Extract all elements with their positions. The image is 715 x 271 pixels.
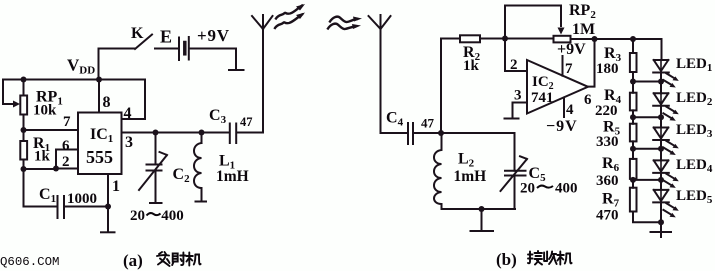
wire LED5 bottom [660, 202, 662, 231]
svg-text:47: 47 [240, 115, 253, 129]
ground pin1 [101, 231, 115, 233]
inductor L2 [434, 133, 442, 209]
svg-text:4: 4 [124, 105, 132, 122]
svg-text:2: 2 [62, 154, 70, 170]
wire pin 1 [107, 174, 109, 232]
wire tank top [441, 133, 515, 171]
svg-text:LED2: LED2 [676, 90, 713, 108]
node VDD-pin8 junction [96, 77, 102, 83]
wire R7 bottom lead [633, 180, 661, 222]
wire RP1 wiper link [3, 80, 14, 105]
node output junction [592, 36, 598, 42]
resistor R2 [460, 35, 480, 42]
svg-text:(b): (b) [496, 250, 517, 269]
wire C2 top lead [155, 133, 157, 165]
svg-text:10k: 10k [33, 103, 57, 119]
svg-text:220: 220 [595, 103, 618, 119]
caption glyphs fa-she-ji [157, 252, 201, 266]
antenna TX [252, 15, 273, 29]
wire C4 to tank [413, 132, 441, 134]
svg-text:1mH: 1mH [216, 168, 249, 185]
node row2 R junction [630, 114, 636, 120]
wire L1 bottom lead [201, 188, 203, 201]
battery E [178, 38, 180, 61]
wire R3 top lead [632, 39, 634, 53]
resistor R4 [630, 93, 637, 111]
node row3 LED junction [658, 146, 664, 152]
svg-text:330: 330 [596, 134, 619, 150]
resistor R7 [630, 188, 637, 212]
node ladder bottom junction [658, 219, 664, 225]
wire row2 [633, 116, 661, 118]
wire LED2 leads [660, 106, 662, 128]
potentiometer RP2 [554, 36, 571, 43]
wire VDD to switch K [99, 49, 136, 80]
wave arrows RX [330, 17, 357, 22]
wire pin2/pin6 tie [24, 150, 79, 170]
svg-text:20: 20 [520, 181, 535, 197]
svg-text:1k: 1k [34, 149, 51, 165]
svg-text:1mH: 1mH [454, 168, 487, 185]
node R1-pin2 junction [21, 166, 27, 172]
capacitor C4 [408, 123, 413, 144]
wire switch to battery [155, 48, 179, 50]
svg-text:7: 7 [565, 61, 573, 77]
svg-text:K: K [131, 25, 144, 42]
wire RP1 bottom lead [23, 115, 25, 142]
svg-text:Q606.COM: Q606.COM [0, 255, 60, 269]
wire row1 [633, 81, 661, 83]
caption glyphs jie-shou-ji [528, 251, 572, 265]
LED LED3 [653, 128, 679, 156]
svg-text:6: 6 [584, 92, 592, 108]
wire C5 bottom lead [514, 176, 516, 210]
arrow C2 variable [139, 152, 167, 190]
svg-text:7: 7 [63, 114, 71, 130]
svg-text:R6: R6 [602, 155, 620, 174]
wire tank to ground [481, 209, 483, 231]
resistor R3 [630, 53, 637, 72]
wire feedback loop [505, 6, 561, 39]
wire pin 3 input [513, 103, 528, 119]
potentiometer RP1 wiper arrow [13, 101, 20, 108]
node VDD-RP1 junction [21, 77, 27, 83]
svg-text:E: E [160, 27, 172, 47]
wire C3 to antenna [237, 29, 264, 133]
svg-text:180: 180 [596, 61, 619, 77]
svg-text:VDD: VDD [67, 56, 95, 77]
svg-text:LED1: LED1 [676, 56, 712, 74]
node C2 junction [153, 130, 159, 136]
node C1-pin1 junction [105, 204, 111, 210]
svg-text:1M: 1M [572, 21, 595, 38]
potentiometer RP2 wiper arrow [558, 28, 565, 35]
wire pin 4 supply [563, 98, 565, 118]
node tank ground junction [479, 206, 485, 212]
svg-text:47: 47 [421, 116, 435, 131]
wire row4 [633, 179, 661, 181]
wire VDD rail [3, 79, 145, 81]
node row4 LED junction [658, 177, 664, 183]
wire C1 right lead [65, 206, 109, 208]
wire pin 7 supply [562, 56, 564, 76]
wire pin 7 [24, 129, 79, 131]
ground L1 [196, 201, 207, 203]
svg-text:3: 3 [514, 88, 522, 104]
svg-text:3: 3 [125, 134, 133, 151]
node R2-feedback junction [502, 36, 508, 42]
wire C2 bottom lead [155, 171, 157, 203]
LED LED4 [653, 160, 679, 188]
svg-text:8: 8 [103, 94, 111, 111]
antenna RX [369, 15, 391, 29]
LED LED1 [653, 60, 679, 88]
wire RP1 top lead [23, 80, 25, 96]
ground C2 [150, 202, 162, 204]
svg-text:C1: C1 [39, 186, 56, 205]
wire RX antenna down [381, 29, 408, 133]
svg-text:2: 2 [510, 57, 518, 73]
node row4 R junction [630, 177, 636, 183]
node row2 LED junction [658, 114, 664, 120]
svg-text:+9V: +9V [557, 41, 586, 58]
wire R1 bottom lead [23, 160, 25, 207]
wire pin 3 output [122, 132, 230, 134]
svg-text:LED4: LED4 [676, 157, 713, 175]
svg-text:470: 470 [596, 208, 619, 224]
svg-text:1: 1 [112, 178, 120, 195]
wire pin 8 [98, 80, 100, 113]
ground tank [471, 230, 494, 232]
wire C1 left lead [24, 206, 58, 208]
resistor R1 [20, 141, 27, 160]
wire pin 6 output [588, 39, 595, 87]
resistor R5 [630, 124, 637, 142]
capacitor C1 [58, 196, 65, 218]
svg-text:LED5: LED5 [676, 188, 713, 206]
svg-text:C3: C3 [209, 107, 227, 126]
wire R6 leads [632, 149, 634, 180]
node pin7 junction [21, 127, 27, 133]
LED LED2 [653, 93, 679, 121]
ground pin3 [505, 118, 519, 120]
wire R5 leads [632, 117, 634, 149]
resistor R6 [630, 159, 637, 179]
svg-text:C4: C4 [386, 110, 404, 129]
wire row3 [633, 148, 661, 150]
wire L1 top lead [201, 133, 203, 144]
svg-text:4: 4 [566, 102, 574, 118]
ground ladder [651, 232, 672, 237]
svg-text:1k: 1k [463, 58, 480, 74]
svg-text:LED3: LED3 [676, 122, 713, 140]
node R3 top junction [630, 36, 636, 42]
wave arrows TX [276, 6, 302, 19]
wire R2 to RP2 [480, 38, 554, 40]
svg-text:−9V: −9V [546, 118, 578, 135]
node tank top junction [438, 130, 444, 136]
svg-text:RP2: RP2 [569, 2, 596, 21]
node L1 junction [199, 130, 205, 136]
svg-text:555: 555 [86, 147, 113, 167]
arrow C5 variable [501, 156, 528, 191]
inductor L1 [194, 143, 202, 190]
wire ladder top corner [661, 39, 663, 60]
svg-text:400: 400 [161, 208, 184, 224]
svg-text:L2: L2 [458, 151, 475, 170]
wire LED3 leads [660, 140, 662, 160]
wire R3 bottom lead [632, 72, 634, 82]
node row1 LED junction [658, 79, 664, 85]
wire tank to R2 [441, 39, 460, 134]
op-amp timer IC1 555 box [78, 113, 122, 175]
svg-text:400: 400 [555, 181, 578, 197]
svg-text:1000: 1000 [67, 191, 97, 207]
svg-text:360: 360 [596, 173, 619, 189]
svg-text:(a): (a) [123, 251, 143, 270]
LED LED5 [653, 190, 679, 218]
svg-text:C2: C2 [173, 166, 191, 185]
ground battery [229, 69, 244, 71]
capacitor C2 variable [147, 165, 162, 171]
wire R4 leads [632, 82, 634, 118]
svg-text:+9V: +9V [197, 26, 230, 45]
svg-text:20: 20 [130, 208, 145, 224]
capacitor C3 [230, 124, 236, 144]
wire battery to ground [189, 49, 236, 70]
wire pin 2 input [505, 39, 527, 72]
capacitor C5 variable [505, 171, 526, 176]
svg-text:6: 6 [62, 138, 70, 154]
wire pin 4 loop [122, 80, 146, 120]
switch K blade [135, 35, 152, 50]
node pin2-pin6 junction [53, 166, 59, 172]
wire LED4 leads [660, 173, 662, 190]
wire LED1 leads [660, 73, 662, 94]
wire tank bottom [442, 208, 516, 210]
svg-text:741: 741 [531, 90, 554, 106]
node row3 R junction [630, 146, 636, 152]
wire RP2 to ladder [571, 38, 662, 40]
node row1 R junction [630, 79, 636, 85]
potentiometer RP1 [20, 96, 27, 115]
op-amp IC2 741 triangle [527, 60, 588, 114]
